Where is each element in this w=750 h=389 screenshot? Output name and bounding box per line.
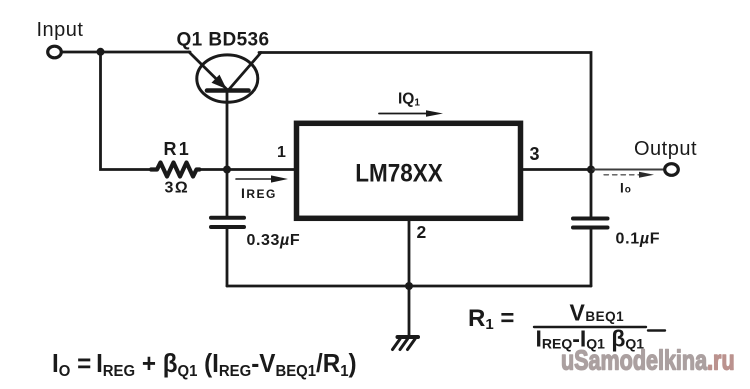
ground	[393, 337, 419, 350]
svg-text:3Ω: 3Ω	[165, 180, 190, 197]
svg-text:Output: Output	[634, 138, 697, 160]
wire to output terminal	[591, 169, 665, 171]
formula R1	[468, 300, 665, 352]
wire top rail right	[259, 53, 591, 170]
wire input rail left	[62, 51, 190, 54]
wire ground stem	[408, 286, 411, 337]
node input junction	[97, 48, 105, 56]
svg-text:0.33µF: 0.33µF	[247, 232, 301, 249]
svg-text:R1: R1	[164, 139, 191, 159]
wire input drop to R1	[101, 52, 152, 170]
current arrow IQ1	[379, 110, 443, 117]
svg-text:Q1 BD536: Q1 BD536	[177, 29, 270, 50]
node A	[223, 166, 231, 174]
wire ground rail	[227, 285, 591, 288]
node output junction	[587, 166, 595, 174]
regulator U1 LM78XX	[297, 123, 521, 218]
svg-text:0.1µF: 0.1µF	[616, 231, 661, 248]
wire pin3 to output node	[523, 168, 591, 171]
wire base to node A	[226, 92, 229, 170]
capacitor C2 0.1uF	[573, 170, 608, 287]
svg-text:2: 2	[417, 222, 427, 242]
terminal Output	[665, 164, 679, 176]
terminal Input	[48, 46, 62, 58]
svg-text:Input: Input	[37, 19, 84, 41]
svg-text:1: 1	[277, 144, 286, 161]
capacitor C1 0.33uF	[211, 170, 244, 287]
svg-text:IREG: IREG	[241, 185, 277, 201]
node ground junction	[405, 282, 413, 290]
svg-text:3: 3	[530, 144, 540, 164]
wire pin2	[408, 221, 411, 286]
svg-text:uSamodelkina.ru: uSamodelkina.ru	[561, 345, 735, 376]
current arrow Io	[604, 172, 654, 178]
svg-text:LM78XX: LM78XX	[355, 159, 443, 187]
wire R1 to pin1	[199, 168, 294, 171]
current arrow IREG	[236, 175, 288, 182]
resistor R1	[151, 163, 200, 177]
transistor Q1	[189, 52, 261, 102]
